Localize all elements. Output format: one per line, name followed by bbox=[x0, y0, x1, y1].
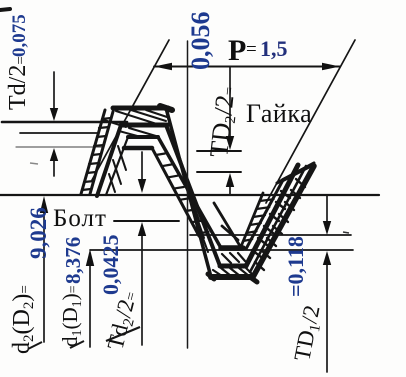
valley left flank F4 (outer) bbox=[166, 108, 211, 277]
valley right ladder band right edge bbox=[246, 180, 283, 249]
valley right flank D3 outer from B3 bbox=[253, 166, 314, 277]
extension line (H2) bbox=[20, 132, 98, 134]
construction flank line right bbox=[266, 40, 355, 203]
extension line bolt d2 min (H7) bbox=[114, 220, 179, 222]
arrow TD2/2 up bbox=[226, 173, 234, 187]
valley left flank F2 bbox=[152, 148, 199, 236]
svg-text:=: = bbox=[246, 39, 257, 60]
hatch strokes between B2 and B3 bbox=[213, 268, 252, 276]
svg-text:d1(D1)=: d1(D1)= bbox=[58, 285, 85, 347]
extension line D2 min (H4) bbox=[197, 150, 241, 152]
underline slash of Td2/2 label bbox=[106, 327, 140, 341]
arrow Td2/2 down at pitch bbox=[138, 179, 146, 193]
hatch strokes between T2L and T3L bbox=[109, 146, 126, 192]
tooth crest T3 flat bbox=[128, 135, 158, 139]
tooth crest T1 flat bbox=[113, 106, 168, 111]
extension line d1/D1 (H9) bbox=[90, 249, 353, 251]
extension line D2 max (H5) bbox=[197, 171, 241, 173]
svg-text:0,0425: 0,0425 bbox=[98, 235, 123, 296]
underline slash of d1(D1) label bbox=[70, 341, 84, 348]
arrow d1 up bbox=[86, 249, 94, 266]
arrow d2 up bbox=[40, 196, 48, 213]
speck right of band bbox=[343, 232, 349, 233]
valley right flank V1R (ladder left edge) bbox=[240, 193, 263, 249]
ladder rungs right band bbox=[243, 199, 273, 241]
tooth left flank T2L bbox=[97, 125, 121, 196]
TD2/2 dimension line bbox=[229, 67, 231, 138]
band top cut inner blob bbox=[283, 166, 310, 180]
valley left flank F1 (nut V left) bbox=[158, 137, 221, 248]
speck left margin bbox=[30, 163, 38, 164]
ladder rungs left flank bbox=[82, 118, 111, 190]
hatch strokes between F3 and F4 bbox=[180, 158, 208, 252]
svg-text:Гайка: Гайка bbox=[246, 99, 312, 128]
svg-text:1,5: 1,5 bbox=[260, 36, 288, 61]
arrow TD2/2 down bbox=[226, 136, 234, 150]
valley right flank D2 from B2 bbox=[246, 165, 298, 266]
underline slash of d2(D2) label bbox=[28, 342, 42, 349]
svg-text:=0,118: =0,118 bbox=[283, 236, 308, 297]
Td2/2 dimension line lower bbox=[141, 236, 143, 345]
arrow TD1/2 down bbox=[323, 221, 331, 235]
extension line d max (H1) bbox=[2, 121, 127, 124]
ladder rungs valley left band bbox=[156, 154, 209, 234]
Td2/2 arrow shaft above pitch bbox=[141, 152, 143, 180]
arrow P left bbox=[154, 63, 172, 70]
svg-text:9,026: 9,026 bbox=[26, 207, 51, 259]
svg-text:8,376: 8,376 bbox=[61, 237, 85, 284]
hatch strokes right band A2-D2 bbox=[252, 191, 290, 257]
Td/2 dimension line lower bbox=[53, 158, 55, 176]
tooth left flank band edge E2 bbox=[81, 110, 105, 194]
valley left flank F3 (bolt) bbox=[166, 125, 220, 266]
valley bottom B3 flat bbox=[211, 274, 252, 280]
tooth crest T4 flat bbox=[124, 146, 152, 151]
svg-text:P: P bbox=[228, 34, 246, 67]
arrow P right bbox=[322, 63, 340, 70]
valley bottom B2 flat bbox=[220, 264, 246, 269]
corner mark top-left bbox=[0, 9, 10, 10]
arrow Td2/2 up at d2min bbox=[138, 222, 146, 236]
svg-text:0,075: 0,075 bbox=[9, 14, 30, 57]
extension line (H3) bbox=[16, 146, 104, 148]
svg-text:Болт: Болт bbox=[53, 205, 107, 232]
Td/2 dimension line upper bbox=[53, 72, 55, 110]
hatch strokes inside valley V1 bbox=[214, 203, 240, 246]
tooth crest T2 flat bbox=[121, 123, 167, 128]
band top cut bbox=[277, 163, 314, 183]
B3 right corner blob bbox=[250, 277, 257, 282]
extension line D1 nominal (H8) bbox=[190, 234, 351, 236]
svg-text:d2(D2)=: d2(D2)= bbox=[9, 285, 37, 354]
pitch line (d2/D2 nominal) bbox=[0, 194, 379, 196]
hatch strokes between B1 and B2 bbox=[222, 253, 245, 263]
right band middle line bbox=[250, 166, 306, 272]
P dimension line bbox=[154, 66, 340, 68]
hatch strokes crest band T2-T3 bbox=[119, 128, 156, 137]
TD1/2 dimension line bbox=[326, 196, 328, 222]
dimension verticals and arrows bbox=[44, 41, 327, 372]
arrow Td/2 down bbox=[50, 108, 58, 121]
arrow TD1/2 up bbox=[323, 251, 331, 265]
hatch strokes right band D2-D3 bbox=[255, 179, 305, 270]
arrow Td/2 up bbox=[50, 148, 58, 161]
svg-text:0,056: 0,056 bbox=[186, 12, 215, 71]
TD2/2 extension vertical long bbox=[187, 41, 189, 348]
tooth left flank outer E1 bbox=[90, 108, 114, 194]
valley bottom B1 flat bbox=[221, 245, 243, 251]
B3 left corner blob bbox=[208, 274, 214, 279]
tooth crest T1 right corner blob bbox=[160, 106, 172, 110]
construction flank line left bbox=[92, 40, 169, 180]
d2 dimension line bbox=[43, 212, 45, 342]
tooth left flank T3L bbox=[106, 137, 128, 195]
d1 dimension line bbox=[89, 265, 91, 347]
hatch strokes crest band T1-T2 bbox=[104, 110, 167, 127]
